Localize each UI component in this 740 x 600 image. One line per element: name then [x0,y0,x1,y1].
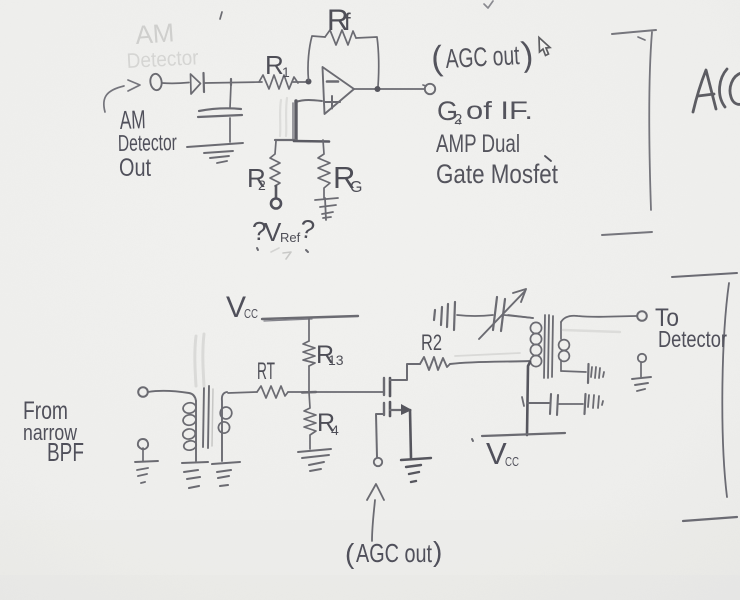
svg-text:Detector: Detector [118,129,178,156]
transformer T2 core [544,315,553,378]
diode D1 [191,74,201,94]
junction node (inverting input) [306,79,312,85]
channel bar lower [389,402,392,416]
wire var cap to T2 [504,315,533,318]
feedback wire down to output [356,37,379,87]
ground (under R4) [298,449,331,471]
wire to variable capacitor [457,315,493,316]
capacitor with hatches [585,394,586,414]
resistor R13 [303,341,315,366]
label Vcc (bottom) [486,436,519,471]
resistor R2 [270,141,280,186]
svg-text:13: 13 [328,352,344,368]
drain wire [390,364,420,380]
svg-text:,: , [457,105,463,127]
svg-text:f: f [344,9,351,36]
Vcc rail [262,316,358,319]
feedback wire up [308,36,325,80]
wire: R13 to node [308,366,310,392]
svg-text:Gate Mosfet: Gate Mosfet [436,159,558,189]
wire [205,82,308,83]
capacitor (bypass) [550,394,558,415]
svg-text:V: V [486,436,507,471]
svg-text:4: 4 [331,422,339,438]
svg-text:RT: RT [257,358,275,385]
junction tick [522,397,524,406]
node: small terminal with ground (far left) [138,439,148,449]
node: Vref terminal [271,199,281,209]
resistor Rf [325,30,356,45]
bracket (bottom right) [672,273,737,521]
label (AGC out) bottom [345,536,442,569]
label (AGC out) [430,35,535,78]
ground (under RG) [315,198,338,220]
label AM Detector Out [118,104,178,182]
wire: secondary bottom to cap [561,371,586,372]
ground (far left) [135,461,158,483]
gate 2 wire down to AGC node [376,414,384,457]
svg-text:BPF: BPF [47,437,84,467]
resistor RG [318,140,330,198]
erased wire ghost [563,330,620,332]
op-amp U1 [323,67,355,114]
junction dash [302,391,316,394]
wire: T1 secondary to RT [228,392,257,393]
ground (right) [632,377,651,391]
wire [162,82,189,85]
svg-text:CC: CC [505,454,519,469]
svg-text:V: V [226,291,246,324]
node: AM detector input terminal [149,73,162,91]
ground (under C1) [187,143,243,163]
erased smudge above core [195,334,204,386]
bracket (top right) [602,30,656,235]
label From narrow BPF [23,397,84,467]
node junction at capacitor [230,79,232,85]
svg-text:R2: R2 [421,330,442,355]
ground (under T1 primary) [182,462,208,488]
wire: T2 primary bottom down to Vcc [527,362,530,435]
wire: + input [296,100,322,102]
svg-text:AMP Dual: AMP Dual [436,130,520,158]
transformer T1 core [203,386,209,448]
source wire with arrow [390,409,406,411]
label ?Vref? [252,213,317,247]
wire: R2 to T2 primary [450,361,530,364]
mouse cursor [539,38,550,56]
transformer T1 primary winding [195,401,197,461]
svg-text:R: R [265,50,284,80]
resistor R4 [304,392,316,449]
label Gate Mosfet [436,156,558,189]
wire: rail to R13 [308,318,310,341]
svg-text:1: 1 [282,64,290,80]
svg-text:Detector: Detector [658,326,727,352]
svg-text:(: ( [345,538,355,569]
transformer T2 secondary winding [560,322,562,339]
label AMP Dual [436,130,520,158]
svg-text:): ) [433,536,442,567]
ground (under source) [401,458,431,482]
variable arrow [479,291,525,339]
resistor R2 (drain) [420,357,450,370]
channel bar upper [389,378,392,396]
svg-text:AM: AM [134,17,175,50]
svg-text:G: G [350,179,362,196]
transformer T1 secondary winding [222,392,227,461]
node: AGC out terminal [425,84,435,94]
stray check mark top [484,1,493,8]
svg-text:Detector: Detector [126,46,199,73]
MOSFET Q1 (dual gate) : gate 1 [383,378,385,395]
svg-text:2: 2 [258,177,266,193]
capacitor (secondary to gnd hatches) [587,364,590,383]
stray apostrophe mark [220,12,222,19]
transformer T2 primary winding [508,315,533,318]
resistor R1 [259,75,298,89]
wire: T2 secondary top to output [561,316,637,322]
label G2 of IF [437,96,533,128]
branch wire to caps [528,402,549,404]
wire: divider top rail [275,139,296,141]
svg-text:of IF.: of IF. [466,97,533,125]
ground (under T1 secondary) [212,462,240,486]
Vcc rail (bottom) [482,433,565,436]
wire: input to transformer [148,391,196,401]
wire: thick vertical to divider [294,101,297,140]
wire: RT to gate [288,391,383,393]
node: terminal with ground (right) [638,354,646,362]
svg-text:AGC out: AGC out [356,538,433,568]
label Vcc (top) [226,291,258,324]
ghost erased text "AM Detector" [126,17,199,73]
erased scribble near + input [280,98,287,136]
svg-text:Out: Out [119,154,151,182]
trimmer cap hatches [434,302,455,330]
node: To Detector output terminal [637,311,647,321]
capacitor C1 [230,84,231,108]
variable capacitor plates [493,297,505,331]
svg-text:AGC out: AGC out [445,40,521,74]
label To Detector [655,304,727,352]
svg-text:CC: CC [244,306,258,321]
arrow up to AGC node [372,500,375,541]
label AGC (clipped at edge) [693,69,740,112]
resistor RT [257,386,288,398]
curved arrow to AM input [104,86,124,112]
MOSFET Q1 gate 2 [383,403,385,415]
node: input terminal [138,387,148,397]
wire: op-amp output [354,88,424,90]
